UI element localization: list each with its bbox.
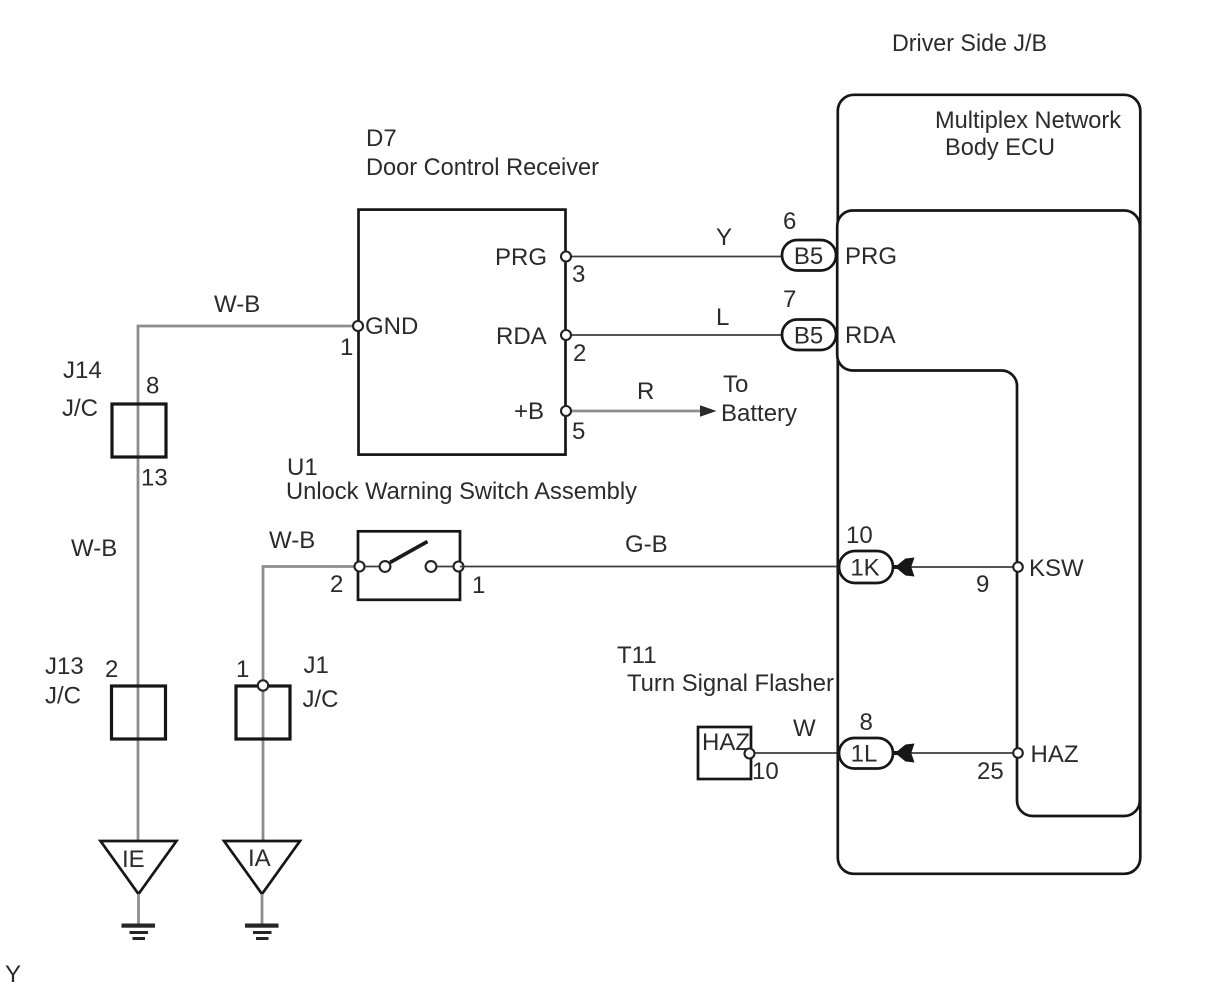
wire W-B from switch pin 2 down through J1 to IA triangle [263,567,360,842]
svg-text:Body ECU: Body ECU [945,134,1055,161]
arrowhead into 1L [893,744,915,763]
svg-text:R: R [637,378,654,405]
svg-text:D7: D7 [366,125,397,152]
svg-text:8: 8 [860,709,873,736]
svg-text:J1: J1 [304,652,329,679]
pin circle U1 pin 2 [355,562,365,572]
svg-text:25: 25 [977,758,1004,785]
wire W-B vertical left trunk through J14 and J13 to IE triangle [137,325,140,841]
wire HAZ from ECU pin 25 to connector 1L arrow [909,752,1016,754]
svg-text:IE: IE [122,846,145,873]
wire L from D7 pin 2 to connector B5 [566,334,784,336]
svg-text:J13: J13 [45,653,84,680]
connector B5 (PRG row) [782,240,836,271]
svg-text:J/C: J/C [45,683,81,710]
arrowhead into 1K [893,558,915,577]
svg-text:T11: T11 [617,642,657,669]
svg-text:Y: Y [5,961,21,986]
svg-text:1: 1 [472,572,485,599]
svg-text:1: 1 [340,334,353,361]
svg-text:Multiplex Network: Multiplex Network [935,107,1122,134]
wire stub below IE triangle [137,894,140,924]
ground triangle IA [224,841,300,894]
svg-text:1: 1 [236,656,249,683]
junction connector J13 box [112,686,166,739]
svg-text:Turn Signal Flasher: Turn Signal Flasher [627,670,834,697]
switch contact wire right [437,566,458,568]
component U1 switch box [358,531,460,600]
wire Y from D7 pin 3 to connector B5 [566,256,784,258]
Multiplex Network Body ECU inner outline [837,211,1140,817]
pin circle U1 pin 1 [454,562,464,572]
svg-text:2: 2 [330,571,343,598]
svg-text:To: To [723,371,748,398]
pin circle KSW [1013,562,1023,572]
svg-text:U1: U1 [287,454,318,481]
svg-text:7: 7 [783,286,796,313]
ground symbol below IE [122,924,156,941]
svg-text:9: 9 [976,571,989,598]
svg-text:J/C: J/C [303,686,339,713]
svg-text:6: 6 [783,208,796,235]
ground symbol below IA [245,924,279,941]
pin circle J1 [258,680,268,690]
pin circle D7 PRG [561,252,571,262]
Driver Side J/B outer box [838,95,1141,874]
switch contact wire left [360,566,379,568]
svg-text:KSW: KSW [1029,555,1084,582]
connector 1L [839,738,893,769]
wire KSW from ECU pin 9 to connector 1K arrow [909,566,1016,568]
svg-text:W: W [793,715,816,742]
svg-text:G-B: G-B [625,531,668,558]
svg-text:3: 3 [572,261,585,288]
svg-text:PRG: PRG [845,243,897,270]
svg-text:Battery: Battery [721,400,797,427]
svg-text:J/C: J/C [62,395,98,422]
svg-text:5: 5 [572,418,585,445]
svg-text:HAZ: HAZ [702,729,750,756]
junction connector J1 box [236,686,290,739]
svg-text:J14: J14 [63,357,102,384]
svg-text:10: 10 [752,758,779,785]
wire stub below IA triangle [261,894,264,924]
connector 1K [839,551,893,583]
svg-text:2: 2 [105,656,118,683]
svg-text:W-B: W-B [269,527,315,554]
pin circle HAZ [1013,748,1023,758]
ground triangle IE [101,841,177,894]
svg-text:W-B: W-B [214,291,260,318]
svg-text:Y: Y [716,224,732,251]
svg-text:8: 8 [146,373,159,400]
svg-text:B5: B5 [794,243,823,270]
pin circle D7 RDA [561,330,571,340]
junction connector J14 box [112,404,166,457]
wire G-B from U1 pin 1 to connector 1K [460,566,840,568]
svg-text:L: L [716,304,729,331]
component T11 HAZ box [698,727,751,779]
pin circle D7 +B [561,406,571,416]
svg-text:1K: 1K [850,555,879,582]
switch contact circle right [426,561,437,572]
svg-text:PRG: PRG [495,244,547,271]
svg-text:1L: 1L [851,741,878,768]
wire W-B horizontal from GND pin to left corner [138,325,358,328]
svg-text:IA: IA [248,845,271,872]
switch contact circle left [380,561,391,572]
svg-text:Unlock Warning Switch Assembly: Unlock Warning Switch Assembly [286,478,637,505]
connector B5 (RDA row) [782,320,836,351]
svg-text:RDA: RDA [496,323,547,350]
wire R from D7 pin 5 to battery arrow [566,410,701,413]
component D7 Door Control Receiver box [359,210,566,455]
svg-text:GND: GND [365,313,418,340]
arrowhead to battery [700,405,717,417]
pin circle D7 GND [353,321,363,331]
svg-text:+B: +B [514,398,544,425]
pin circle T11 HAZ [745,749,755,759]
svg-text:B5: B5 [794,323,823,350]
wire W from T11 HAZ to connector 1L [751,752,840,754]
svg-text:13: 13 [141,465,168,492]
svg-text:Driver Side J/B: Driver Side J/B [892,30,1047,57]
svg-text:2: 2 [573,340,586,367]
svg-text:10: 10 [846,522,873,549]
switch blade [390,542,428,563]
svg-text:RDA: RDA [845,322,896,349]
svg-text:W-B: W-B [71,535,117,562]
svg-text:Door Control Receiver: Door Control Receiver [366,154,599,181]
svg-text:HAZ: HAZ [1031,741,1079,768]
